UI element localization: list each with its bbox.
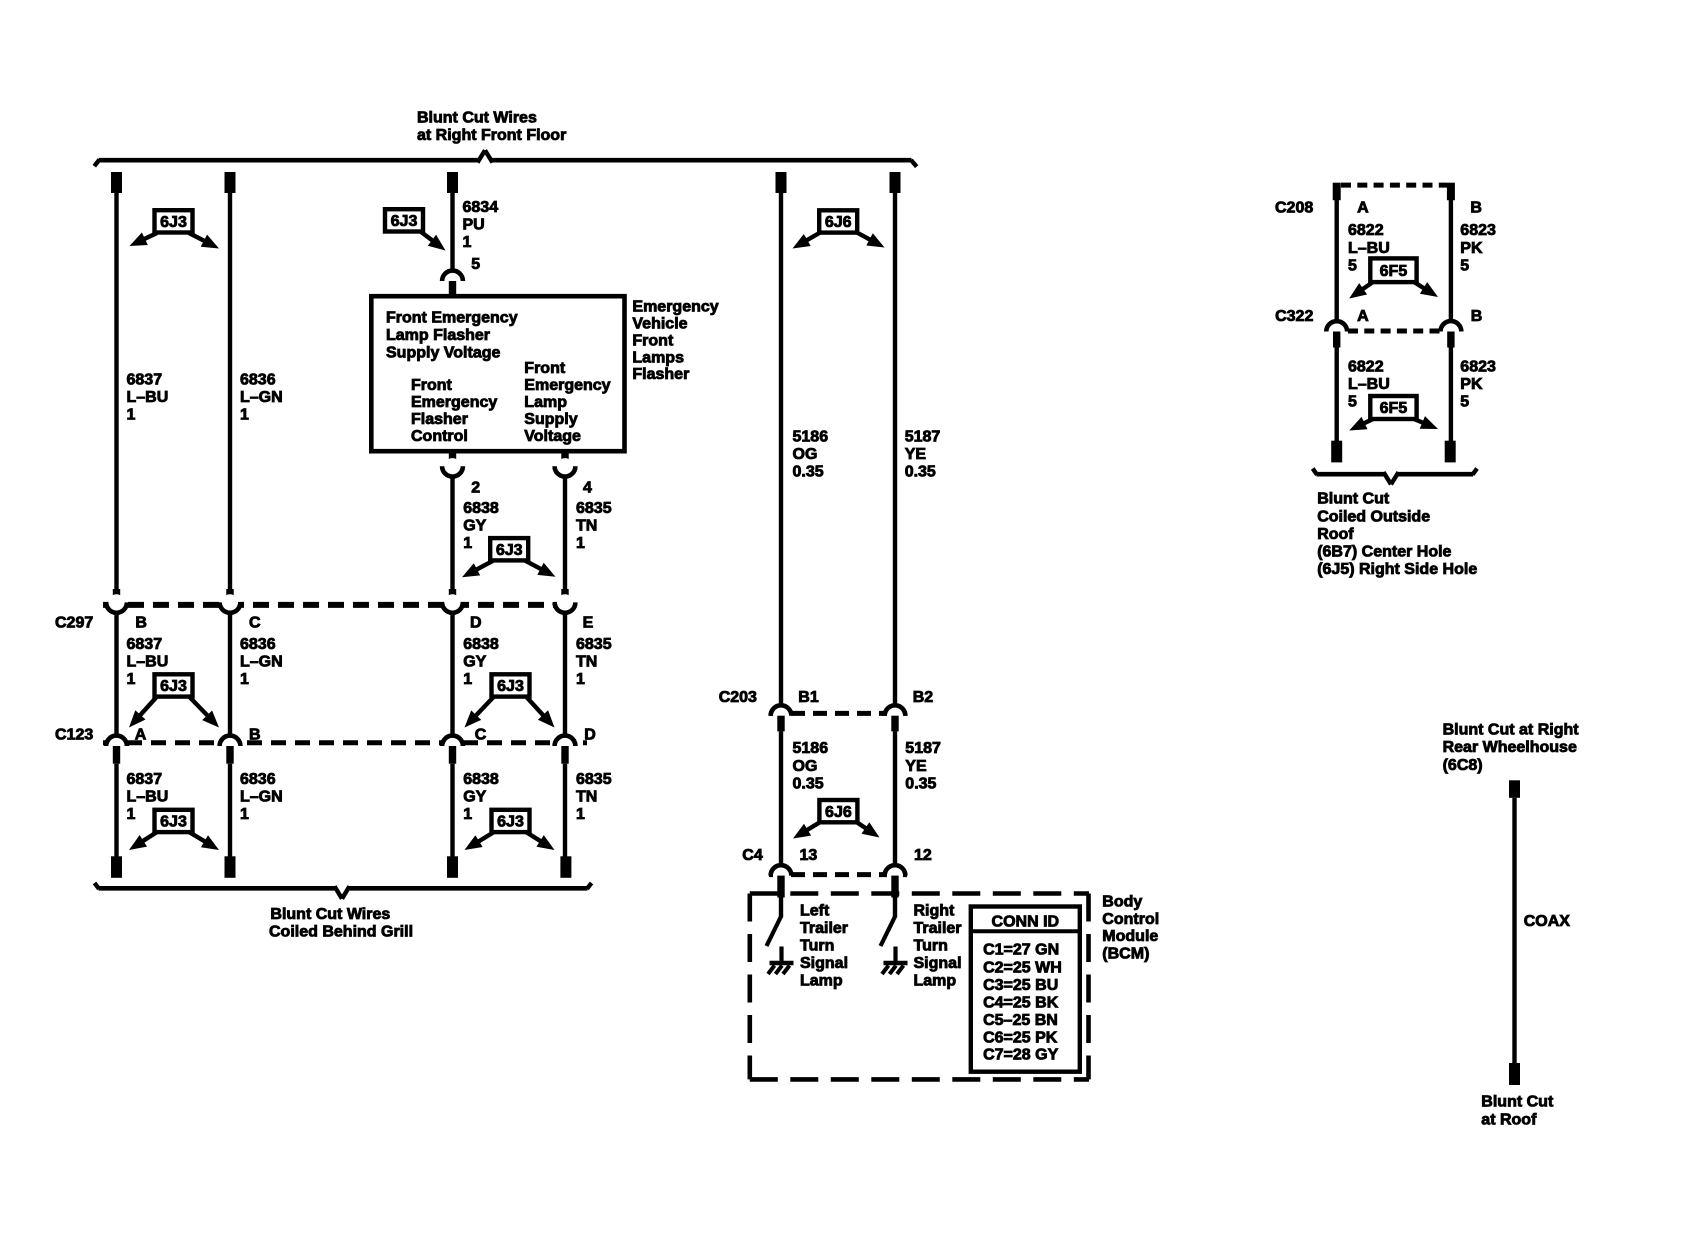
svg-text:C203: C203 — [719, 689, 757, 706]
svg-text:6822: 6822 — [1348, 222, 1384, 239]
svg-text:6837: 6837 — [127, 372, 163, 389]
svg-text:1: 1 — [463, 671, 472, 688]
C123 pin A (arch) — [106, 736, 127, 764]
wire 5187 YE (C203 B2 to BCM 12) — [893, 731, 941, 864]
wire 6835 TN (flasher pin 4 to C297 E) — [563, 477, 612, 589]
svg-text:GY: GY — [463, 789, 486, 806]
svg-text:C3=25 BU: C3=25 BU — [983, 977, 1058, 994]
svg-text:2: 2 — [471, 479, 480, 496]
svg-text:0.35: 0.35 — [905, 775, 936, 792]
Body Control Module dashed box — [750, 894, 1089, 1080]
C4 pin 12 (arch) — [885, 865, 906, 897]
svg-text:Module: Module — [1102, 928, 1158, 945]
Left Trailer Turn Signal Lamp label — [800, 903, 848, 990]
svg-text:GY: GY — [463, 654, 486, 671]
svg-text:Body: Body — [1102, 894, 1142, 911]
Right Trailer Turn Signal Lamp label — [914, 903, 962, 990]
svg-text:TN: TN — [576, 654, 597, 671]
svg-text:4: 4 — [583, 479, 592, 496]
C123 labels — [55, 726, 596, 743]
svg-text:1: 1 — [240, 407, 249, 424]
svg-text:Vehicle: Vehicle — [632, 316, 687, 333]
svg-text:C: C — [249, 614, 261, 631]
label box 6J3 (wires 6837/6836) — [130, 210, 220, 248]
label box 6J6 (wires 5186/5187 lower) — [793, 800, 880, 839]
C297 pin E (cup) — [555, 589, 576, 613]
svg-text:6838: 6838 — [463, 500, 499, 517]
wire 6837 L-BU (C123 A to blunt cut) — [114, 764, 168, 857]
svg-text:6823: 6823 — [1460, 358, 1496, 375]
blunt cut end 6838 (behind grill) — [447, 856, 458, 878]
svg-text:Left: Left — [800, 903, 830, 920]
svg-text:Flasher: Flasher — [411, 411, 468, 428]
blunt cut end 6836 (behind grill) — [225, 856, 236, 878]
svg-text:C4=25 BK: C4=25 BK — [983, 995, 1059, 1012]
svg-text:YE: YE — [905, 758, 927, 775]
svg-text:at Roof: at Roof — [1481, 1111, 1537, 1128]
label box 6F5 (upper) — [1349, 258, 1438, 298]
svg-text:Emergency: Emergency — [524, 377, 610, 394]
svg-text:Lamp Flasher: Lamp Flasher — [386, 327, 490, 344]
svg-text:1: 1 — [463, 535, 472, 552]
svg-text:6J3: 6J3 — [160, 814, 187, 831]
label box 6J3 (mid right pair) — [465, 674, 555, 727]
svg-text:6J3: 6J3 — [160, 214, 187, 231]
svg-text:6836: 6836 — [240, 636, 276, 653]
svg-text:1: 1 — [240, 806, 249, 823]
svg-text:0.35: 0.35 — [793, 464, 824, 481]
wire 6823 PK (C322 B to blunt cut) — [1449, 348, 1496, 442]
C4 labels — [742, 847, 932, 864]
svg-text:Front: Front — [524, 360, 566, 377]
svg-text:Voltage: Voltage — [524, 428, 581, 445]
svg-text:C6=25 PK: C6=25 PK — [983, 1029, 1058, 1046]
svg-text:5187: 5187 — [905, 740, 941, 757]
COAX wire — [1512, 798, 1570, 1063]
svg-text:Front: Front — [632, 332, 674, 349]
svg-text:OG: OG — [793, 758, 818, 775]
svg-text:YE: YE — [905, 446, 927, 463]
svg-text:(6J5) Right Side Hole: (6J5) Right Side Hole — [1317, 561, 1477, 578]
svg-text:Turn: Turn — [914, 938, 948, 955]
svg-text:A: A — [1357, 308, 1369, 325]
svg-text:L–BU: L–BU — [127, 389, 169, 406]
svg-text:5186: 5186 — [793, 740, 829, 757]
blunt cut end 6837 (behind grill) — [111, 856, 122, 878]
C203 labels — [719, 689, 934, 706]
C322 pin A (arch) — [1326, 321, 1347, 347]
wire 6834 PU (blunt cut to flasher pin 5) — [450, 193, 498, 271]
svg-text:PK: PK — [1460, 376, 1483, 393]
svg-text:5: 5 — [1348, 394, 1357, 411]
svg-text:6J3: 6J3 — [160, 678, 187, 695]
svg-text:13: 13 — [800, 847, 818, 864]
left trailer turn signal output (wire + switch blade) — [767, 898, 784, 947]
svg-text:Front: Front — [411, 377, 453, 394]
svg-text:B: B — [135, 614, 147, 631]
svg-text:C: C — [475, 726, 487, 743]
svg-text:1: 1 — [576, 671, 585, 688]
wire 6837 L-BU (C297 B to C123 A) — [114, 613, 168, 735]
svg-text:Blunt Cut Wires: Blunt Cut Wires — [270, 906, 390, 923]
svg-text:Blunt Cut: Blunt Cut — [1317, 491, 1390, 508]
label box 6J3 (bottom right pair) — [465, 810, 555, 850]
svg-text:PK: PK — [1460, 240, 1483, 257]
svg-text:6838: 6838 — [463, 771, 499, 788]
svg-text:0.35: 0.35 — [905, 464, 936, 481]
svg-text:6837: 6837 — [127, 771, 163, 788]
svg-text:E: E — [583, 614, 594, 631]
svg-text:Signal: Signal — [800, 955, 848, 972]
blunt cut end 6823 (outside roof) — [1445, 441, 1456, 463]
svg-text:Lamp: Lamp — [800, 973, 843, 990]
svg-text:Coiled Outside: Coiled Outside — [1317, 508, 1430, 525]
blunt cut end (coax top) — [1509, 780, 1520, 798]
svg-text:Control: Control — [411, 428, 468, 445]
blunt cut at right rear wheelhouse label — [1443, 722, 1580, 774]
svg-text:6838: 6838 — [463, 636, 499, 653]
svg-text:6J3: 6J3 — [496, 542, 523, 559]
svg-text:6836: 6836 — [240, 372, 276, 389]
label box 6F5 (lower) — [1349, 396, 1438, 431]
blunt cut at roof label — [1481, 1094, 1554, 1129]
svg-text:C322: C322 — [1275, 308, 1313, 325]
svg-text:1: 1 — [240, 671, 249, 688]
svg-text:Lamps: Lamps — [632, 349, 684, 366]
svg-text:CONN ID: CONN ID — [992, 913, 1060, 930]
C297 pin D (cup) — [442, 589, 463, 613]
brace: Blunt Cut Wires Coiled Behind Grill — [95, 883, 592, 941]
C322 pin B (arch) — [1441, 321, 1462, 347]
blunt cut end 6835 (behind grill) — [560, 856, 571, 878]
svg-text:C297: C297 — [55, 614, 93, 631]
svg-text:(6C8): (6C8) — [1443, 757, 1483, 774]
svg-text:B: B — [1470, 200, 1482, 217]
wire 6822 L-BU (C208 A to C322 A) — [1335, 200, 1390, 321]
svg-text:6J6: 6J6 — [825, 804, 852, 821]
svg-text:C4: C4 — [742, 847, 763, 864]
svg-text:5: 5 — [1460, 394, 1469, 411]
blunt cut wire end 5186 — [776, 172, 787, 193]
label box 6J3 (mid left pair) — [129, 674, 219, 727]
wire 6836 L-GN (C297 C to C123 B) — [228, 613, 283, 735]
svg-text:L–BU: L–BU — [1348, 376, 1390, 393]
svg-text:TN: TN — [576, 789, 597, 806]
svg-text:B1: B1 — [798, 689, 819, 706]
svg-text:Lamp: Lamp — [524, 394, 567, 411]
svg-text:at Right Front Floor: at Right Front Floor — [417, 127, 566, 144]
module name label — [632, 299, 718, 384]
svg-text:L–BU: L–BU — [1348, 240, 1390, 257]
wire 6835 TN (C297 E to C123 D) — [563, 613, 612, 735]
wire 6838 GY (C123 C to blunt cut) — [450, 764, 499, 857]
svg-text:OG: OG — [793, 446, 818, 463]
blunt cut wire end 6837 — [111, 172, 122, 193]
svg-text:Coiled Behind Grill: Coiled Behind Grill — [269, 924, 413, 941]
C123 pin B (arch) — [220, 736, 241, 764]
svg-text:5: 5 — [1460, 257, 1469, 274]
svg-text:1: 1 — [576, 535, 585, 552]
svg-text:Supply: Supply — [524, 411, 577, 428]
svg-text:Control: Control — [1102, 911, 1159, 928]
svg-text:6J3: 6J3 — [391, 213, 418, 230]
svg-text:C1=27 GN: C1=27 GN — [983, 941, 1059, 958]
svg-text:1: 1 — [463, 806, 472, 823]
wire 6822 L-BU (C322 A to blunt cut) — [1335, 348, 1390, 442]
module box: Emergency Vehicle Front Lamps Flasher — [371, 296, 624, 451]
svg-text:1: 1 — [127, 806, 136, 823]
svg-text:6834: 6834 — [463, 199, 499, 216]
connector C123 (dashed mating line) — [103, 740, 587, 745]
svg-text:6837: 6837 — [127, 636, 163, 653]
svg-text:Flasher: Flasher — [632, 366, 689, 383]
blunt cut wire end 5187 — [890, 172, 901, 193]
svg-text:Turn: Turn — [800, 938, 834, 955]
svg-text:C123: C123 — [55, 726, 93, 743]
CONN ID table — [971, 907, 1080, 1072]
svg-text:C7=28 GY: C7=28 GY — [983, 1047, 1058, 1064]
wire 6838 GY (C297 D to C123 C) — [450, 613, 499, 735]
svg-text:D: D — [584, 726, 596, 743]
svg-text:1: 1 — [463, 234, 472, 251]
svg-text:Front Emergency: Front Emergency — [386, 309, 518, 326]
svg-text:0.35: 0.35 — [793, 775, 824, 792]
blunt cut wire end 6834 — [447, 172, 458, 193]
wire 6836 L-GN (C123 B to blunt cut) — [228, 764, 283, 857]
connector pin 4 of flasher (cup) — [555, 451, 592, 496]
svg-text:Roof: Roof — [1317, 526, 1354, 543]
svg-text:C2=25 WH: C2=25 WH — [983, 959, 1062, 976]
wire 5186 OG (blunt cut to C203 B1) — [779, 193, 828, 705]
svg-text:Lamp: Lamp — [914, 973, 957, 990]
ground (left trailer output) — [768, 947, 794, 975]
wire 6836 L-GN (blunt cut to C297 C) — [228, 193, 283, 589]
svg-text:B2: B2 — [913, 689, 934, 706]
blunt cut end (coax bottom) — [1509, 1063, 1520, 1085]
connector C4 (dashed mating line) — [769, 872, 907, 877]
svg-text:6836: 6836 — [240, 771, 276, 788]
svg-text:TN: TN — [576, 518, 597, 535]
wire 6837 L-BU (blunt cut to C297 B) — [114, 193, 168, 589]
svg-text:5: 5 — [1348, 257, 1357, 274]
svg-text:L–GN: L–GN — [240, 789, 283, 806]
svg-text:6835: 6835 — [576, 636, 612, 653]
blunt cut wire end 6836 — [225, 172, 236, 193]
brace: Blunt Cut Wires at Right Front Floor — [94, 110, 916, 167]
connector C297 (dashed mating line) — [103, 602, 577, 608]
ground (right trailer output) — [882, 947, 908, 975]
svg-text:L–GN: L–GN — [240, 389, 283, 406]
connector C203 (dashed mating line) — [769, 711, 907, 716]
svg-text:L–GN: L–GN — [240, 654, 283, 671]
C297 labels — [55, 614, 594, 631]
svg-text:GY: GY — [463, 518, 486, 535]
svg-text:6J3: 6J3 — [497, 814, 524, 831]
connector pin 5 of flasher (arch) — [442, 256, 480, 297]
svg-text:Blunt Cut: Blunt Cut — [1481, 1094, 1554, 1111]
svg-text:6835: 6835 — [576, 500, 612, 517]
svg-text:6F5: 6F5 — [1380, 400, 1408, 417]
svg-text:(BCM): (BCM) — [1102, 945, 1149, 962]
svg-text:A: A — [135, 726, 147, 743]
label box 6J3 (wire 6834) — [385, 209, 446, 250]
C297 pin C (cup) — [220, 589, 241, 613]
svg-text:Trailer: Trailer — [914, 920, 962, 937]
svg-text:Right: Right — [914, 903, 956, 920]
wire 5186 OG (C203 B1 to BCM 13) — [779, 731, 828, 864]
label box 6J3 (bottom left pair) — [129, 810, 219, 850]
svg-text:Supply Voltage: Supply Voltage — [386, 345, 500, 362]
svg-text:(6B7) Center Hole: (6B7) Center Hole — [1317, 544, 1451, 561]
right trailer turn signal output (wire + switch blade) — [881, 898, 898, 947]
wire 6838 GY (flasher pin 2 to C297 D) — [450, 477, 499, 589]
svg-text:Signal: Signal — [914, 955, 962, 972]
svg-text:A: A — [1357, 200, 1369, 217]
svg-text:PU: PU — [463, 217, 485, 234]
wire 6835 TN (C123 D to blunt cut) — [563, 764, 612, 857]
svg-text:Blunt Cut at Right: Blunt Cut at Right — [1443, 722, 1580, 739]
svg-text:5187: 5187 — [905, 429, 941, 446]
svg-text:12: 12 — [914, 847, 932, 864]
wire 5187 YE (blunt cut to C203 B2) — [893, 193, 941, 705]
svg-text:B: B — [249, 726, 261, 743]
svg-text:1: 1 — [127, 671, 136, 688]
svg-text:5186: 5186 — [793, 429, 829, 446]
svg-text:6823: 6823 — [1460, 222, 1496, 239]
connector C208 (dashed line with wire ends) — [1275, 183, 1482, 217]
svg-text:1: 1 — [576, 806, 585, 823]
C297 pin B (cup) — [106, 589, 127, 613]
C123 pin C (arch) — [442, 736, 463, 764]
C4 pin 13 (arch) — [771, 865, 792, 897]
svg-text:6F5: 6F5 — [1380, 263, 1408, 280]
svg-text:5: 5 — [471, 256, 480, 273]
svg-text:6835: 6835 — [576, 771, 612, 788]
svg-text:Rear Wheelhouse: Rear Wheelhouse — [1443, 739, 1577, 756]
label box 6J3 (wires 6838/6835) — [462, 538, 556, 577]
label box 6J6 (wires 5186/5187) — [793, 210, 885, 248]
svg-text:C208: C208 — [1275, 200, 1313, 217]
svg-text:Blunt Cut Wires: Blunt Cut Wires — [417, 110, 537, 127]
svg-text:L–BU: L–BU — [127, 789, 169, 806]
svg-text:Trailer: Trailer — [800, 920, 848, 937]
C123 pin D (arch) — [555, 736, 576, 764]
C203 pin B2 (arch) — [885, 705, 906, 731]
svg-text:Emergency: Emergency — [632, 299, 718, 316]
BCM name label — [1102, 894, 1159, 963]
connector C322 (dashed mating line) — [1275, 308, 1482, 331]
connector pin 2 of flasher (cup) — [442, 451, 480, 496]
svg-text:6822: 6822 — [1348, 358, 1384, 375]
svg-text:B: B — [1471, 308, 1483, 325]
svg-text:1: 1 — [127, 407, 136, 424]
svg-text:D: D — [470, 614, 482, 631]
svg-text:C5–25 BN: C5–25 BN — [983, 1012, 1058, 1029]
svg-text:6J3: 6J3 — [497, 678, 524, 695]
svg-text:COAX: COAX — [1524, 913, 1571, 930]
blunt cut end 6822 (outside roof) — [1331, 441, 1342, 463]
svg-text:6J6: 6J6 — [825, 214, 852, 231]
svg-text:L–BU: L–BU — [127, 654, 169, 671]
wire 6823 PK (C208 B to C322 B) — [1449, 200, 1496, 321]
svg-text:Emergency: Emergency — [411, 394, 497, 411]
brace: Blunt Cut Coiled Outside Roof — [1313, 469, 1478, 579]
C203 pin B1 (arch) — [771, 705, 792, 731]
